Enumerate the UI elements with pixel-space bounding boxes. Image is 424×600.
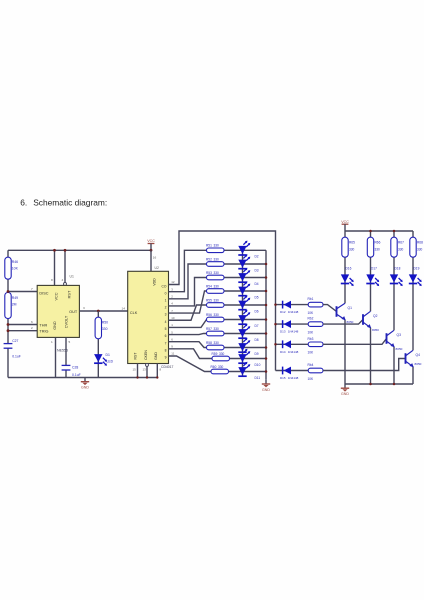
svg-text:CO: CO: [162, 284, 167, 288]
node: row 8 rail junction: [265, 346, 268, 349]
wire: output 4 to LED row 5: [169, 305, 207, 320]
wire: row 7 through LED to rail: [224, 333, 266, 335]
LED D19: [409, 266, 422, 286]
svg-text:OUT: OUT: [69, 310, 78, 314]
svg-text:VCC: VCC: [147, 239, 155, 243]
resistor R59: [212, 352, 230, 361]
node: row 7 rail junction: [265, 332, 268, 335]
diode D15 1N4148: [280, 367, 299, 381]
svg-text:D11: D11: [255, 376, 261, 380]
resistor R51: [206, 244, 224, 253]
svg-text:VCC: VCC: [341, 220, 349, 224]
LED D17: [366, 266, 379, 286]
svg-text:CLK: CLK: [130, 311, 138, 315]
node: VCC rail corner: [150, 249, 153, 252]
wire: left vertical branch: [7, 250, 9, 377]
resistor R68: [410, 237, 423, 257]
svg-text:R67: R67: [398, 241, 404, 245]
svg-text:3: 3: [165, 313, 167, 317]
svg-text:GND: GND: [262, 388, 270, 392]
transistor Q2 8050: [363, 311, 379, 332]
svg-text:Rb1: Rb1: [308, 297, 314, 301]
svg-text:R53 330: R53 330: [206, 271, 219, 275]
node: R46/R49/DISC junction: [7, 290, 10, 293]
svg-text:RST: RST: [134, 352, 138, 360]
svg-text:U1: U1: [70, 275, 74, 279]
LED D7: [238, 310, 259, 328]
svg-text:Schematic diagram:: Schematic diagram:: [33, 197, 107, 207]
svg-text:D4: D4: [255, 282, 259, 286]
node: row 4 rail junction: [265, 290, 268, 293]
wire: CO to top rail A and diode rail: [169, 231, 276, 371]
wire: Rb3 to Q3 base: [323, 339, 387, 345]
wire: row 1 through LED to rail: [224, 249, 266, 251]
wire: Q2 emitter drop: [370, 328, 372, 384]
svg-text:GND: GND: [154, 352, 158, 360]
capacitor C28: [62, 365, 81, 376]
svg-text:R68: R68: [417, 241, 423, 245]
svg-text:0: 0: [165, 291, 167, 295]
svg-text:8050: 8050: [415, 362, 422, 366]
LED D8: [238, 324, 259, 342]
wire: 555 GND pin down: [55, 337, 57, 377]
svg-text:D8: D8: [255, 338, 259, 342]
pin bubble RST: [64, 283, 67, 286]
svg-text:R65: R65: [349, 241, 355, 245]
wire: row 9 through LED to rail: [230, 358, 267, 360]
svg-text:D2: D2: [255, 255, 259, 259]
wire: row 10 through LED to rail: [229, 371, 267, 373]
resistor R52: [206, 257, 224, 266]
wire: output 7 to LED row 8: [169, 342, 207, 348]
svg-text:TRIG: TRIG: [39, 330, 48, 334]
svg-text:D9: D9: [255, 352, 259, 356]
svg-text:CKEN: CKEN: [144, 350, 148, 360]
svg-text:10K: 10K: [308, 377, 315, 381]
svg-text:R58 330: R58 330: [206, 341, 219, 345]
node: rail junction: [393, 230, 396, 233]
resistor R65: [342, 237, 355, 257]
svg-text:10K: 10K: [12, 267, 19, 271]
wire: Q4 collector riser: [412, 284, 414, 350]
wire: Q4 emitter drop: [412, 367, 414, 384]
wire: output 3 to LED row 4: [169, 291, 207, 313]
wire: LED string vertical: [242, 246, 244, 377]
resistor Rb4: [308, 363, 324, 381]
wire: row 3 through LED to rail: [224, 277, 266, 279]
resistor R67: [391, 237, 404, 257]
svg-text:7: 7: [31, 287, 33, 291]
wire: Q2 collector riser: [370, 284, 372, 311]
transistor Q3 8050: [387, 330, 403, 351]
ground symbol right: [344, 384, 346, 388]
svg-text:Q4: Q4: [416, 353, 421, 357]
diode D12 1N4148: [280, 301, 299, 315]
capacitor C27: [4, 339, 21, 358]
node: rail junction: [369, 230, 372, 233]
wire: 555 RST pin 4 riser: [64, 250, 66, 282]
wire: VCC rail right: [345, 230, 413, 232]
wire: TRIG: [8, 330, 37, 332]
resistor R46: [5, 257, 19, 279]
svg-text:R55 330: R55 330: [206, 298, 219, 302]
svg-text:GND: GND: [341, 392, 349, 396]
svg-text:R59 330: R59 330: [212, 352, 225, 356]
svg-text:D5: D5: [255, 295, 259, 299]
svg-text:D6: D6: [255, 309, 259, 313]
node: row 2 rail junction: [265, 263, 268, 266]
svg-text:0.1uF: 0.1uF: [72, 373, 81, 377]
LED D9: [238, 338, 259, 356]
svg-text:8: 8: [51, 278, 53, 282]
node: THR junction: [7, 323, 10, 326]
svg-text:10K: 10K: [308, 331, 315, 335]
wire: CD4017 RST pin down: [137, 364, 139, 378]
LED D11: [238, 362, 260, 380]
svg-text:R49: R49: [12, 296, 18, 300]
svg-text:5: 5: [165, 327, 167, 331]
svg-text:1: 1: [51, 340, 53, 344]
resistor R54: [206, 284, 224, 293]
svg-text:D15 1N4148: D15 1N4148: [280, 376, 299, 380]
LED D16: [341, 266, 354, 286]
svg-text:D17: D17: [371, 266, 377, 270]
svg-text:CVOLT: CVOLT: [65, 315, 69, 328]
svg-text:THR: THR: [39, 323, 47, 327]
wire: Q3 collector riser: [393, 284, 395, 330]
svg-text:330: 330: [349, 248, 355, 252]
wire: row 4 through LED to rail: [224, 290, 266, 292]
resistor Rb3: [308, 337, 324, 355]
svg-text:VDD: VDD: [153, 278, 157, 286]
transistor Q4 8050: [406, 350, 422, 367]
wire: output 8 to LED row 9: [169, 349, 213, 359]
pin bubble EN: [146, 363, 149, 366]
op-amp U1 555 timer box: [37, 285, 79, 337]
svg-text:6: 6: [165, 334, 167, 338]
svg-text:D19: D19: [414, 266, 420, 270]
diode D13 1N4148: [280, 320, 299, 334]
svg-text:DISC: DISC: [39, 291, 48, 295]
svg-text:D7: D7: [255, 324, 259, 328]
svg-text:7: 7: [165, 341, 167, 345]
svg-text:Rb3: Rb3: [308, 337, 314, 341]
LED D3: [238, 254, 259, 272]
wire: VCC into VDD pin: [150, 250, 152, 271]
wire: output 2 to LED row 3: [169, 278, 207, 306]
wire: column 3 from rail to LED: [393, 231, 395, 285]
ground symbol middle: [265, 380, 267, 384]
svg-text:D18: D18: [395, 266, 401, 270]
svg-text:10K: 10K: [308, 311, 315, 315]
svg-text:R60 330: R60 330: [211, 365, 224, 369]
svg-text:10K: 10K: [308, 351, 315, 355]
wire: OUT to CLK: [79, 310, 127, 312]
svg-text:10: 10: [171, 316, 175, 320]
wire: CD4017 EN pin down: [146, 366, 148, 377]
resistor R60: [211, 365, 229, 374]
svg-text:6.: 6.: [20, 197, 27, 207]
node: row 6 rail junction: [265, 318, 268, 321]
resistor R66: [367, 237, 380, 257]
wire: output 0 to LED row 1: [169, 250, 207, 291]
svg-text:R54 330: R54 330: [206, 284, 219, 288]
wire: column 2 from rail to LED: [370, 231, 372, 285]
node: row 3 rail junction: [265, 276, 268, 279]
svg-text:Q1: Q1: [348, 306, 353, 310]
svg-text:330: 330: [398, 248, 404, 252]
svg-text:R56 330: R56 330: [206, 313, 219, 317]
svg-text:C28: C28: [72, 365, 78, 369]
svg-text:0.1uF: 0.1uF: [12, 354, 21, 358]
node: OUT/R50 junction: [97, 310, 100, 313]
resistor R58: [206, 341, 224, 350]
resistor R50: [95, 317, 108, 339]
svg-text:1: 1: [165, 298, 167, 302]
ground symbol left: [84, 378, 86, 382]
svg-text:4: 4: [165, 320, 167, 324]
wire: diode row D14: [276, 343, 309, 345]
diode D14 1N4148: [280, 340, 299, 354]
LED D2: [238, 241, 259, 259]
svg-text:13: 13: [143, 368, 147, 372]
wire: Q1 emitter drop: [344, 320, 346, 384]
svg-text:2M: 2M: [12, 303, 17, 307]
svg-text:8050: 8050: [347, 320, 354, 324]
node: row 10 rail junction: [265, 370, 268, 373]
svg-text:3: 3: [83, 306, 85, 310]
LED D5: [238, 281, 259, 299]
svg-text:R52 330: R52 330: [206, 257, 219, 261]
svg-text:D12 1N4148: D12 1N4148: [280, 310, 299, 314]
wire: Q1 collector riser: [344, 284, 346, 303]
node: emitter rail junctions: [369, 383, 372, 386]
svg-text:R57 330: R57 330: [206, 327, 219, 331]
wire: 555 VCC pin 8 riser: [54, 250, 56, 285]
svg-text:6: 6: [31, 320, 33, 324]
svg-text:LED: LED: [107, 360, 114, 364]
svg-text:14: 14: [122, 306, 126, 310]
wire: diode row D13: [276, 323, 309, 325]
svg-text:R51 330: R51 330: [206, 244, 219, 248]
wire: DISC to divider node: [8, 291, 37, 293]
svg-text:R46: R46: [12, 260, 18, 264]
wire: VCC top rail left: [8, 249, 151, 251]
resistor R57: [206, 327, 224, 336]
wire: row 8 through LED to rail: [224, 347, 266, 349]
wire: bottom rail right: [345, 383, 413, 385]
resistor R49: [5, 293, 18, 319]
LED D6: [238, 295, 259, 313]
svg-text:12: 12: [171, 280, 175, 284]
svg-text:4: 4: [62, 278, 64, 282]
wire: row 6 through LED to rail: [224, 319, 266, 321]
wire: Rb2 to Q2 base: [323, 320, 363, 325]
wire: row 5 through LED to rail: [224, 304, 266, 306]
wire: output 6 to LED row 7: [169, 334, 207, 335]
resistor R56: [206, 313, 224, 322]
wire: THR: [8, 324, 37, 326]
node: pin4 on rail: [64, 249, 67, 252]
wire: output 1 to LED row 2: [169, 264, 207, 299]
LED D18: [390, 266, 403, 286]
svg-text:CD4017: CD4017: [161, 365, 174, 369]
node: row 5 rail junction: [265, 304, 268, 307]
svg-text:GND: GND: [53, 321, 57, 330]
LED D10: [238, 349, 260, 367]
wire: column 4 from rail to LED: [412, 231, 414, 285]
svg-text:C27: C27: [12, 339, 18, 343]
svg-text:Q2: Q2: [373, 314, 378, 318]
resistor R53: [206, 271, 224, 280]
wire: output 9 to LED row 10: [169, 356, 212, 372]
svg-text:Q3: Q3: [397, 333, 402, 337]
svg-text:VCC: VCC: [55, 292, 59, 300]
wire: Rb1 to Q1 base: [323, 305, 337, 312]
svg-text:2: 2: [165, 306, 167, 310]
wire: Rb4 to Q4 base: [323, 359, 406, 371]
svg-text:U2: U2: [155, 266, 159, 270]
svg-text:R50: R50: [102, 321, 108, 325]
wire: column 1 from rail to LED: [344, 231, 346, 285]
resistor R55: [206, 298, 224, 307]
title text: [20, 197, 107, 207]
node: row 9 rail junction: [265, 357, 268, 360]
svg-text:8050: 8050: [396, 347, 403, 351]
node: diode rail junction D12: [274, 303, 277, 306]
resistor Rb2: [308, 317, 324, 335]
wire: 555 CVOLT pin down to C28: [65, 337, 67, 377]
svg-text:GND: GND: [81, 386, 89, 390]
svg-text:D13 1N4148: D13 1N4148: [280, 330, 299, 334]
wire: row 2 through LED to rail: [224, 263, 266, 265]
pin numbers CD4017 outputs: [171, 280, 175, 356]
svg-text:15: 15: [133, 368, 137, 372]
wire: output 5 to LED row 6: [169, 320, 207, 328]
svg-text:D16: D16: [346, 266, 352, 270]
node: bottom pin junctions: [136, 376, 138, 378]
op-amp U2 CD4017 box: [128, 271, 169, 363]
node: pin8 on rail: [53, 249, 56, 252]
wire: R50/D1 branch down: [97, 311, 99, 378]
wire: diode row D12: [276, 304, 309, 306]
svg-text:D10: D10: [255, 363, 261, 367]
svg-text:Rb4: Rb4: [308, 363, 314, 367]
svg-text:330: 330: [417, 248, 423, 252]
pin numbers 555: [31, 278, 85, 344]
wire: LED cathode rail to GND: [265, 250, 267, 379]
node: diode rail junction D13: [274, 323, 277, 326]
svg-text:8: 8: [165, 348, 167, 352]
svg-text:8050: 8050: [372, 328, 379, 332]
svg-text:9: 9: [165, 356, 167, 360]
LED D1: [94, 353, 114, 366]
wire: Q3 emitter drop: [393, 347, 395, 384]
svg-text:D3: D3: [255, 268, 259, 272]
wire: CD4017 GND pin down: [156, 364, 158, 378]
svg-text:R66: R66: [375, 241, 381, 245]
svg-text:RST: RST: [68, 290, 72, 298]
svg-text:2: 2: [31, 326, 33, 330]
svg-text:Rb2: Rb2: [308, 317, 314, 321]
svg-text:330: 330: [375, 248, 381, 252]
svg-text:D14 1N4148: D14 1N4148: [280, 350, 299, 354]
svg-text:11: 11: [171, 352, 174, 356]
node: diode rail junction D14: [274, 343, 277, 346]
svg-text:5: 5: [69, 340, 71, 344]
wire: bottom rail left: [8, 377, 157, 379]
LED D4: [238, 268, 259, 286]
node: TRIG junction: [7, 329, 10, 332]
svg-text:330: 330: [102, 327, 108, 331]
svg-text:16: 16: [153, 256, 157, 260]
svg-text:D1: D1: [106, 353, 110, 357]
resistor Rb1: [308, 297, 324, 315]
wire: diode row D15: [276, 370, 309, 372]
transistor Q1 8050: [337, 303, 354, 324]
